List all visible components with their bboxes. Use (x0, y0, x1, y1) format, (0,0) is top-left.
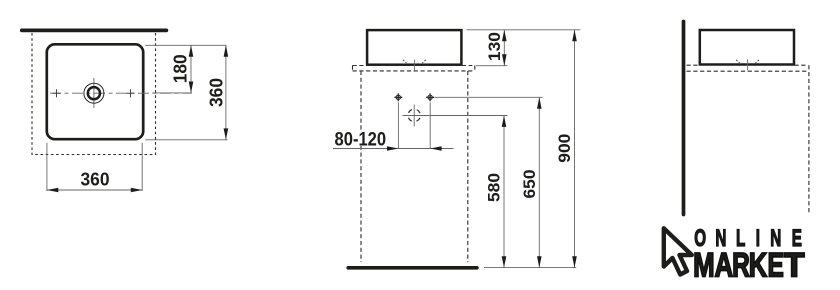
dimension line 580 (503, 116, 505, 268)
extension line basin bottom-left corner down (46, 143, 48, 191)
dimension line 360 right (225, 45, 227, 140)
wall line top (22, 29, 167, 33)
countertop dashed left edge (352, 66, 354, 71)
centerline cross right (127, 89, 135, 97)
dimension line 650 (538, 97, 540, 267)
svg-text:80-120: 80-120 (335, 129, 387, 150)
dimension line 180 (190, 45, 192, 93)
arrow 180 bottom (189, 82, 194, 93)
svg-text:T: T (784, 246, 805, 284)
svg-text:650: 650 (520, 170, 539, 199)
logo text MARKET (693, 246, 805, 284)
arrow 650 bottom (537, 256, 542, 267)
basin side outline (700, 30, 794, 65)
arrow 900 top (572, 30, 577, 41)
svg-text:R: R (732, 247, 750, 285)
side countertop dashed top right (795, 64, 808, 66)
logo text ONLINE (694, 226, 802, 252)
dimension line 80-120 (333, 148, 454, 150)
svg-text:K: K (749, 247, 768, 284)
svg-text:A: A (714, 247, 733, 284)
svg-text:900: 900 (555, 134, 574, 163)
arrow 360b left (47, 188, 58, 193)
extension line faucet level (152, 92, 192, 94)
countertop dashed bottom (353, 70, 475, 72)
centerline cross left (53, 89, 61, 97)
basin front outline (367, 30, 461, 65)
dimension line 130 (503, 30, 505, 66)
countertop dashed right edge (474, 66, 476, 71)
arrow 360b right (131, 188, 142, 193)
basin side centerline (747, 59, 749, 70)
extension line mixer level (403, 115, 508, 117)
arrow 360r bottom (224, 128, 229, 139)
tap hole cross right (426, 93, 434, 101)
faucet centerline vertical (93, 78, 95, 108)
faucet hole outer circle (84, 83, 104, 103)
arrow 80-120 right (430, 146, 441, 151)
svg-text:180: 180 (169, 54, 190, 83)
tap hole extension left down (397, 102, 399, 148)
side countertop dashed right edge and panel (808, 65, 810, 214)
svg-text:130: 130 (485, 32, 504, 61)
arrow 130 bottom (502, 54, 507, 65)
arrow 900 bottom (572, 256, 577, 267)
extension line basin bottom right (476, 65, 508, 67)
side countertop dashed top left (687, 64, 700, 66)
side tap mark right diagonal (756, 60, 760, 63)
basin centerline vertical (413, 60, 415, 71)
svg-text:580: 580 (485, 173, 504, 202)
dimension line 900 (574, 30, 576, 268)
countertop dashed top right (462, 65, 473, 67)
arrow 580 top (502, 116, 507, 127)
svg-text:E: E (767, 247, 783, 285)
tap hole cross left (394, 93, 402, 101)
arrow 80-120 left (387, 146, 398, 151)
svg-text:M: M (693, 247, 715, 284)
faucet centerline horizontal (50, 92, 192, 94)
label 80-120 background (334, 130, 388, 147)
extension line basin bottom-right corner down (141, 143, 143, 191)
arrow 130 top (502, 30, 507, 41)
faucet hole inner circle (88, 87, 100, 99)
logo cursor arrow (664, 228, 692, 274)
dimension line 360 bottom (47, 189, 142, 191)
arrow 580 bottom (502, 256, 507, 267)
pedestal dashed right (467, 71, 469, 262)
basin outline (rounded square) (47, 44, 143, 139)
countertop dashed top left (353, 65, 367, 67)
floor extension line (484, 267, 576, 269)
side countertop dashed bottom (687, 70, 809, 72)
tap hole extension right down (429, 102, 431, 148)
tap mark right diagonal (422, 60, 426, 63)
tap mark left diagonal (403, 60, 407, 63)
mixer hole centerline vertical (413, 105, 415, 127)
wall line vertical (682, 22, 686, 215)
side tap mark left diagonal (736, 60, 740, 63)
extension line tap cross level (434, 96, 542, 98)
extension line basin bottom right (145, 139, 227, 141)
arrow 650 top (537, 97, 542, 108)
countertop dashed outline (32, 33, 156, 155)
mixer hole dashed circle (408, 109, 420, 121)
extension line rim level (466, 29, 580, 31)
arrow 360r top (224, 45, 229, 56)
svg-text:360: 360 (81, 169, 110, 190)
svg-text:360: 360 (206, 78, 227, 107)
arrow 180 top (189, 45, 194, 56)
extension line basin top right (145, 44, 226, 46)
pedestal dashed left (360, 71, 362, 262)
floor line (348, 266, 477, 270)
